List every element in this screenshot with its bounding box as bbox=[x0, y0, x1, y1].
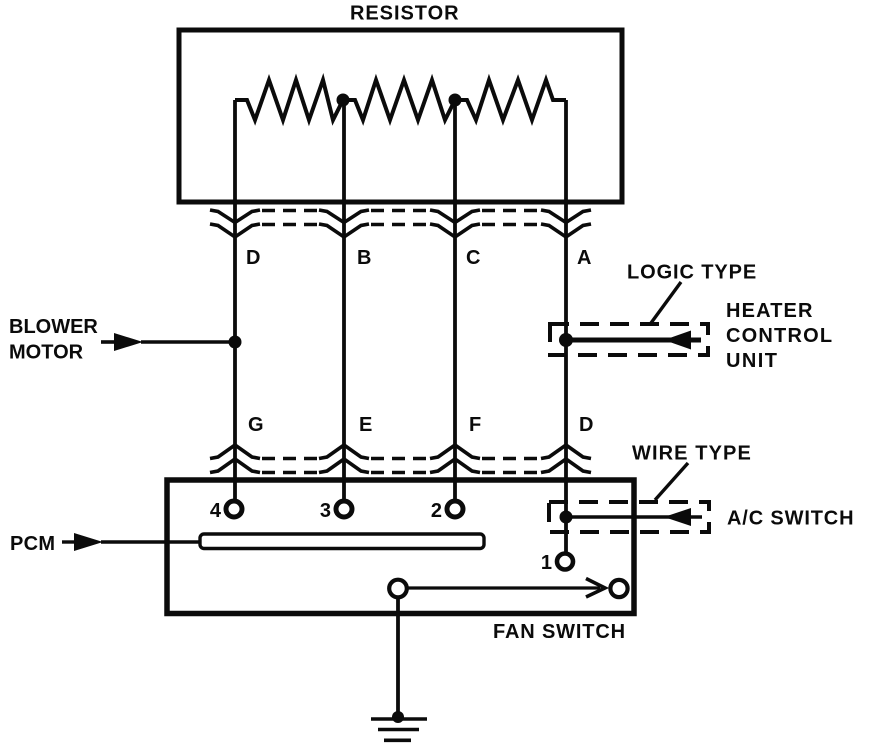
connector pin D2 (row 2 chevrons) bbox=[541, 445, 591, 473]
connector pin F (row 2 chevrons) bbox=[430, 445, 480, 473]
svg-text:3: 3 bbox=[320, 500, 331, 522]
svg-text:2: 2 bbox=[431, 500, 442, 522]
resistor R section 2 bbox=[343, 80, 455, 120]
connector row 1 dashed lines upper bbox=[262, 209, 539, 213]
svg-text:D: D bbox=[246, 247, 260, 269]
svg-text:FAN SWITCH: FAN SWITCH bbox=[493, 621, 626, 643]
heater control unit arrow line bbox=[566, 338, 701, 343]
a/c switch arrow line bbox=[566, 515, 702, 519]
wire blower to node bbox=[141, 340, 235, 344]
svg-text:A/C SWITCH: A/C SWITCH bbox=[727, 508, 854, 530]
fan switch contact circle bbox=[610, 580, 627, 597]
svg-text:HEATER: HEATER bbox=[726, 300, 814, 322]
wire D (left tap, x=235) bbox=[233, 100, 237, 499]
connector row 2 dashed lines upper bbox=[262, 457, 539, 461]
wire C (x=455) bbox=[453, 100, 457, 499]
svg-text:F: F bbox=[469, 414, 481, 436]
fan switch wiper arm bbox=[407, 586, 600, 589]
svg-text:MOTOR: MOTOR bbox=[9, 342, 84, 364]
resistor R section 1 bbox=[235, 80, 343, 120]
connector row 2 dashed lines lower bbox=[262, 471, 539, 475]
svg-text:RESISTOR: RESISTOR bbox=[350, 3, 459, 25]
connector pin G (row 2 chevrons) bbox=[210, 445, 260, 473]
node tap C bbox=[449, 94, 462, 107]
node heater junction on wire A bbox=[559, 333, 573, 347]
svg-text:C: C bbox=[466, 247, 480, 269]
svg-text:LOGIC TYPE: LOGIC TYPE bbox=[627, 262, 757, 284]
pcm arrow bbox=[62, 540, 76, 543]
svg-text:BLOWER: BLOWER bbox=[9, 316, 98, 338]
svg-text:4: 4 bbox=[210, 500, 222, 522]
a/c switch arrowhead bbox=[664, 508, 691, 526]
node tap B bbox=[337, 94, 350, 107]
fan switch wiper pivot circle bbox=[389, 580, 407, 598]
svg-text:WIRE TYPE: WIRE TYPE bbox=[632, 443, 752, 465]
wire B (x=344) bbox=[342, 100, 346, 499]
connector pin D (row 1 chevrons) bbox=[210, 210, 260, 237]
connector pin B (row 1 chevrons) bbox=[319, 210, 369, 237]
svg-text:D: D bbox=[579, 414, 593, 436]
wire A (x=566) bbox=[564, 100, 568, 553]
blower motor arrow bbox=[101, 340, 116, 344]
fan switch wiper open arrowhead bbox=[586, 579, 605, 598]
terminal circle 1 bbox=[557, 554, 573, 570]
pcm wiper bar bbox=[200, 534, 484, 549]
resistor box bbox=[179, 30, 622, 202]
node blower junction bbox=[229, 336, 242, 349]
heater control unit arrowhead bbox=[664, 331, 691, 350]
svg-text:UNIT: UNIT bbox=[726, 350, 778, 372]
ground symbol bbox=[371, 719, 427, 740]
terminal circle 3 bbox=[336, 501, 352, 517]
svg-text:CONTROL: CONTROL bbox=[726, 325, 833, 347]
svg-text:1: 1 bbox=[541, 552, 552, 574]
terminal circle 2 bbox=[447, 501, 463, 517]
connector row 1 dashed lines lower bbox=[262, 223, 539, 227]
a/c switch dashed box bbox=[549, 502, 709, 532]
fan switch box bbox=[167, 480, 634, 614]
terminal circle 4 bbox=[226, 501, 242, 517]
svg-text:A: A bbox=[577, 247, 591, 269]
node a/c junction on wire A bbox=[560, 511, 573, 524]
connector pin C (row 1 chevrons) bbox=[430, 210, 480, 237]
ground node dot bbox=[392, 711, 404, 723]
ground wire bbox=[396, 597, 400, 716]
svg-text:B: B bbox=[357, 247, 371, 269]
svg-text:E: E bbox=[359, 414, 372, 436]
heater control unit dashed box bbox=[550, 324, 708, 355]
resistor R section 3 bbox=[455, 80, 566, 120]
leader line wire type bbox=[655, 463, 688, 500]
connector pin E (row 2 chevrons) bbox=[319, 445, 369, 473]
svg-text:PCM: PCM bbox=[10, 533, 55, 555]
svg-text:G: G bbox=[248, 414, 264, 436]
leader line logic type bbox=[651, 282, 681, 323]
wire pcm to wiper bar bbox=[101, 540, 200, 544]
connector pin A (row 1 chevrons) bbox=[541, 210, 591, 237]
